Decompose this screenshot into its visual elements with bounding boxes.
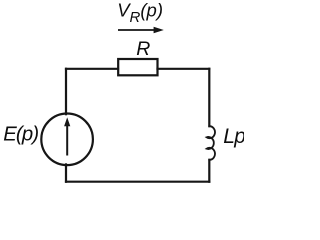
svg-text:R: R [136,38,150,60]
svg-text:VR(p): VR(p) [117,0,163,26]
svg-text:Lp: Lp [223,125,244,148]
svg-text:E(p): E(p) [3,124,38,146]
